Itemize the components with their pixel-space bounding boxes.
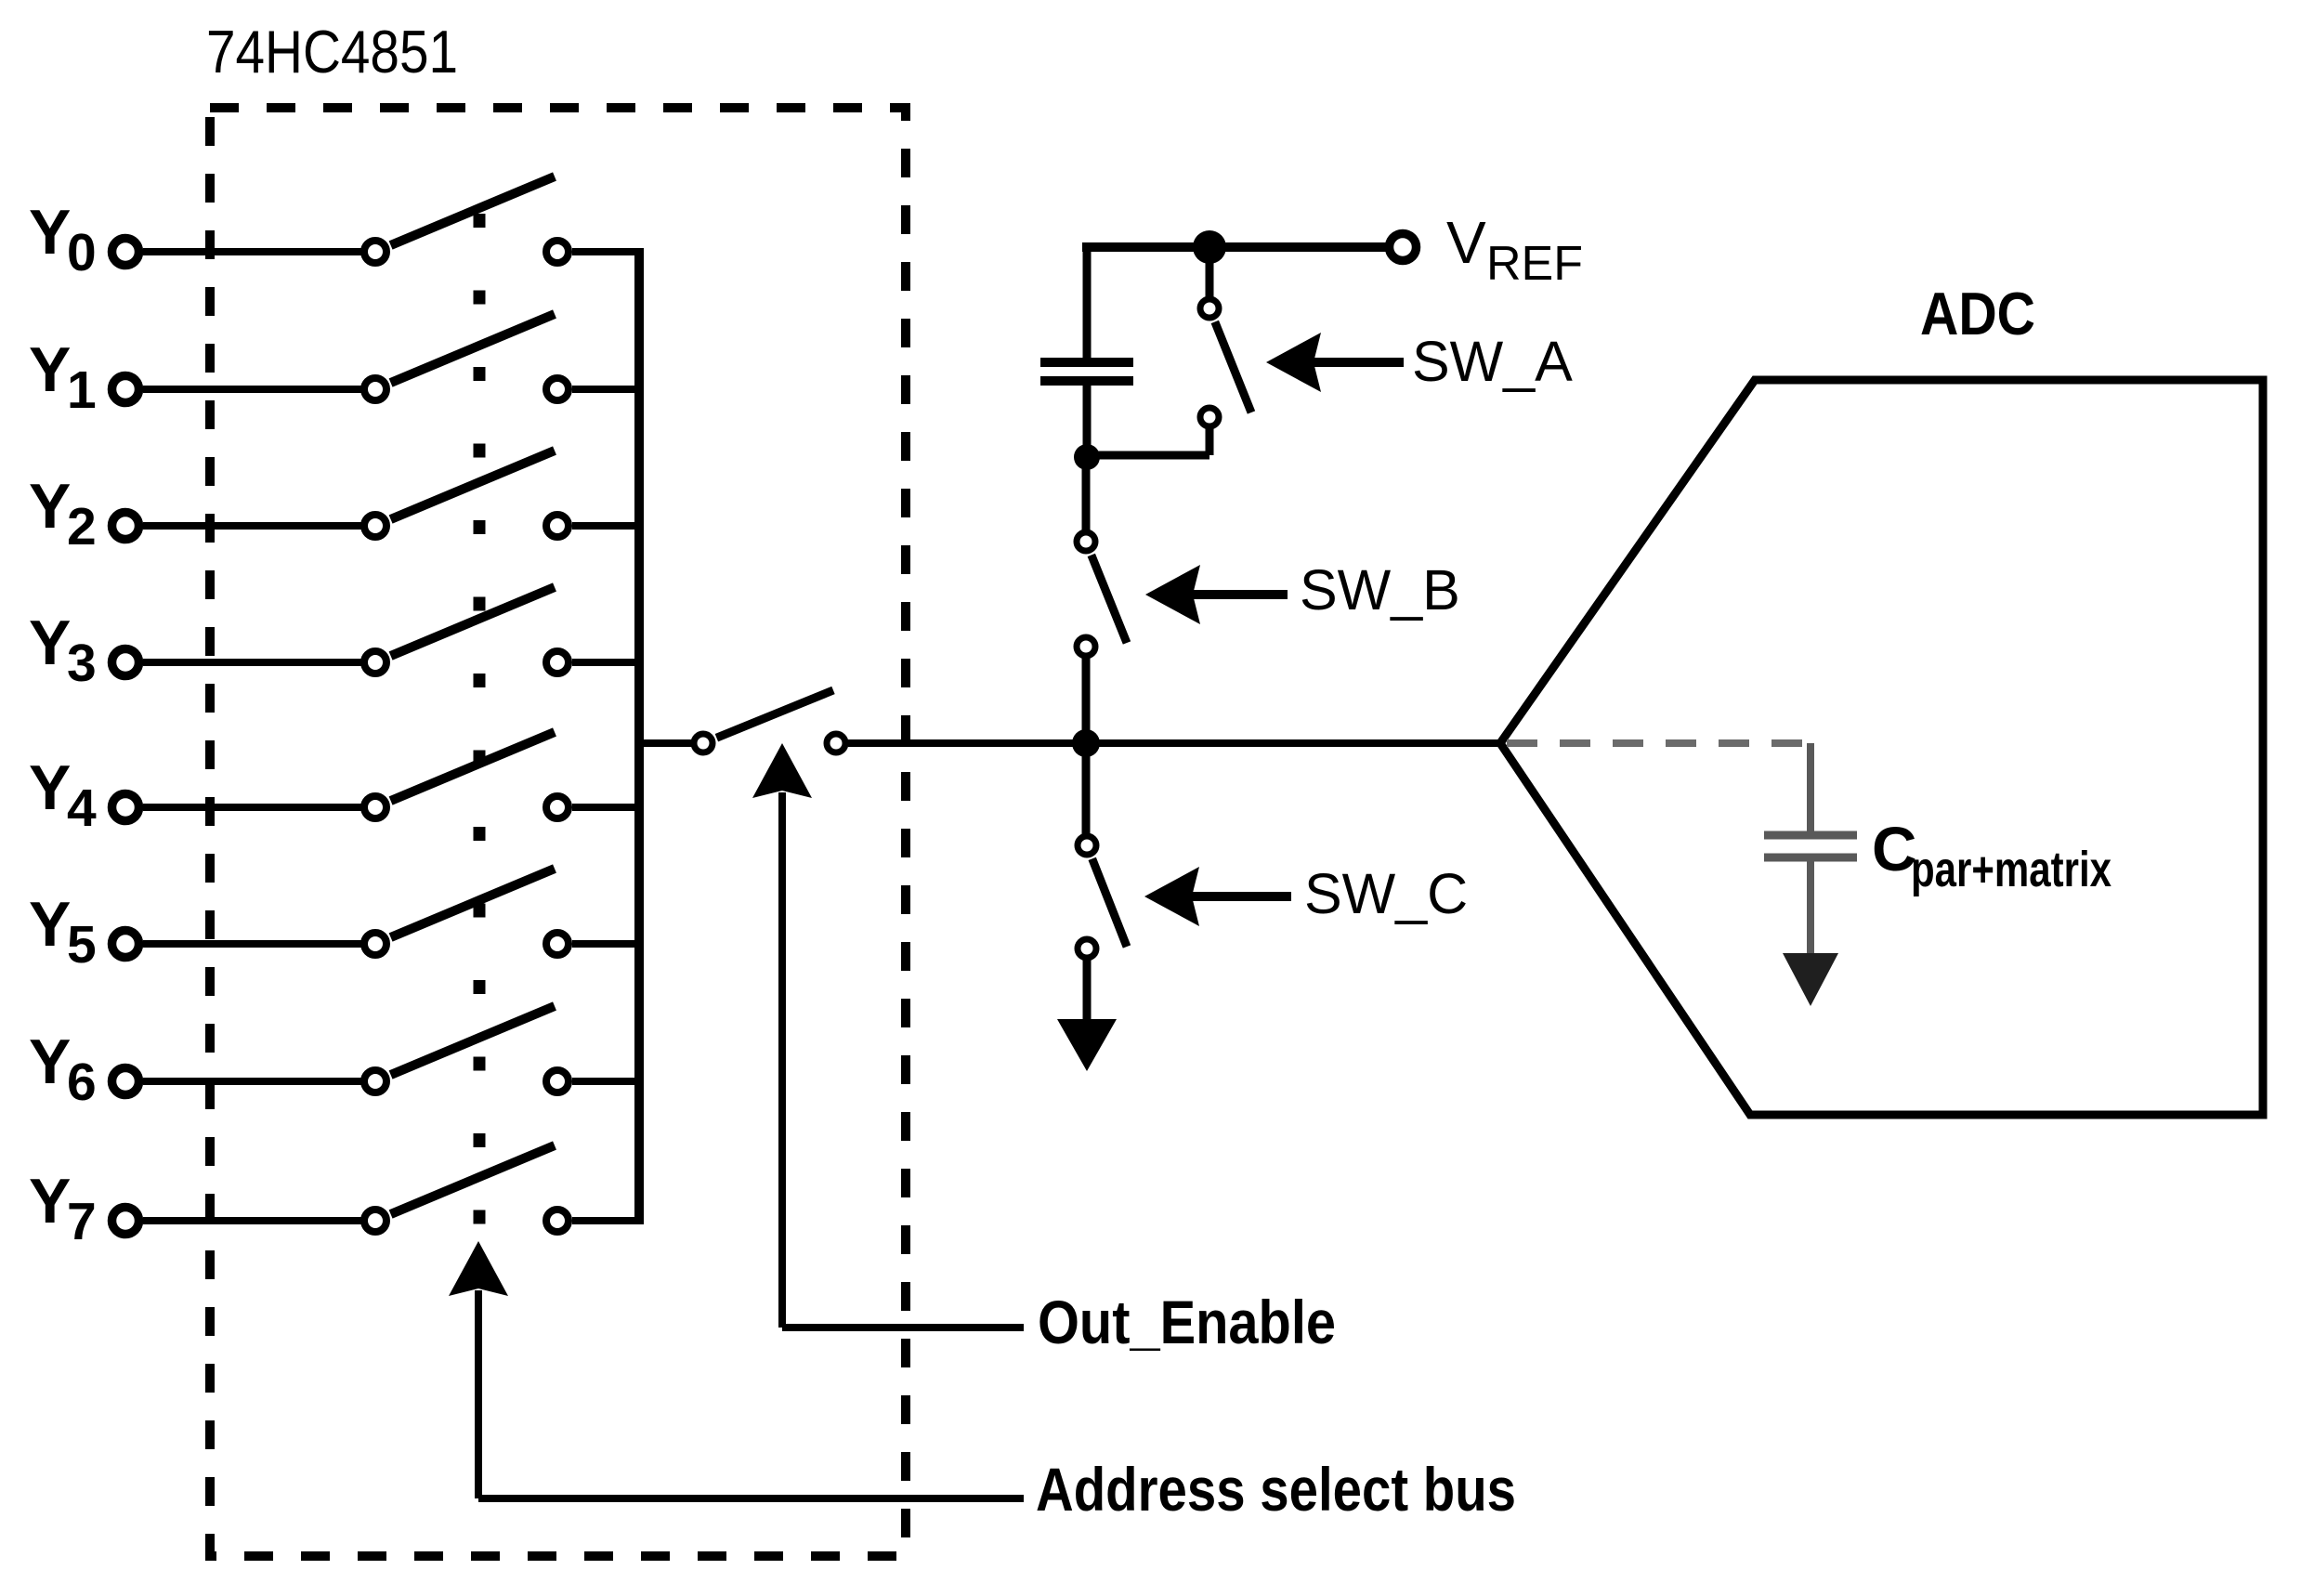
wire Y2 terminal to switch pole [143, 522, 362, 530]
svg-text:4: 4 [67, 778, 97, 838]
switch S3 output contact [546, 651, 569, 674]
switch S1 output contact [546, 378, 569, 400]
terminal Y5 [112, 931, 139, 958]
svg-text:6: 6 [67, 1053, 97, 1112]
switch SW_B bottom contact [1077, 637, 1095, 656]
input Y1 label [29, 334, 97, 420]
svg-text:par+matrix: par+matrix [1911, 842, 2111, 897]
switch S0 output contact [546, 241, 569, 263]
switch S5 output contact [546, 933, 569, 955]
svg-text:2: 2 [67, 497, 97, 556]
SW_C pointer arrow [1144, 867, 1291, 926]
wire Y5 terminal to switch pole [143, 940, 362, 948]
wire Y7 terminal to switch pole [143, 1217, 362, 1224]
svg-text:Y: Y [29, 197, 71, 268]
wire S2 contact to common bus [572, 522, 643, 530]
wire S6 contact to common bus [572, 1078, 643, 1085]
label Address select bus [1036, 1455, 1516, 1524]
wire SW_C bottom contact to ground arrow [1083, 958, 1092, 1031]
switch S6 blade (open) [391, 1006, 555, 1075]
switch S5 pole contact [364, 933, 386, 955]
switch S1 pole contact [364, 378, 386, 400]
svg-text:REF: REF [1486, 237, 1583, 291]
svg-text:Y: Y [29, 1027, 71, 1097]
sampling capacitor C1 bottom plate [1040, 376, 1133, 386]
switch S4 output contact [546, 796, 569, 818]
wire Y0 terminal to switch pole [143, 248, 362, 255]
svg-text:Y: Y [29, 608, 71, 678]
terminal Y3 [112, 649, 139, 676]
switch SW_A blade (open) [1215, 321, 1251, 412]
wire Y1 terminal to switch pole [143, 386, 362, 393]
switch S6 pole contact [364, 1070, 386, 1092]
common bus wire (mux outputs) [634, 248, 644, 1224]
capacitor Cpar+matrix top plate [1764, 831, 1857, 840]
switch S0 blade (open) [391, 177, 555, 245]
svg-text:SW_C: SW_C [1304, 862, 1468, 925]
switch S2 blade (open) [391, 451, 555, 519]
wire VREF node [1082, 242, 1386, 252]
ground arrow below Cpar [1783, 953, 1838, 1006]
wire common output line to ADC [848, 739, 1503, 747]
Out_Enable arrow (points at output switch) [752, 743, 812, 1328]
sampling capacitor C1 top plate [1040, 358, 1133, 367]
SW_A pointer arrow [1266, 333, 1404, 392]
terminal Y6 [112, 1068, 139, 1095]
label SW_C [1304, 862, 1468, 925]
switch S7 output contact [546, 1210, 569, 1232]
svg-text:3: 3 [67, 634, 97, 693]
svg-text:Y: Y [29, 471, 71, 542]
svg-text:74HC4851: 74HC4851 [206, 18, 458, 85]
svg-text:Address select bus: Address select bus [1036, 1455, 1516, 1524]
SW_B pointer arrow [1145, 565, 1288, 624]
switch S5 blade (open) [391, 869, 555, 937]
label Out_Enable [1038, 1288, 1336, 1356]
svg-text:Y: Y [29, 889, 71, 960]
capacitor Cpar+matrix bottom plate [1764, 854, 1857, 862]
switch SW_C top contact [1078, 836, 1096, 855]
switch S1 blade (open) [391, 314, 555, 383]
svg-text:ADC: ADC [1920, 280, 2035, 347]
output switch SW_OE blade (open) [716, 690, 833, 738]
switch S7 pole contact [364, 1210, 386, 1232]
wire SW_A branch to capacitor branch junction [1087, 451, 1209, 460]
ground arrow below SW_C [1057, 1019, 1117, 1071]
ADC U2 outline [1500, 380, 2263, 1115]
svg-text:Y: Y [29, 334, 71, 405]
wire capacitor to junction below [1083, 385, 1092, 455]
input Y5 label [29, 889, 97, 975]
switch S7 blade (open) [391, 1145, 555, 1214]
switch S3 blade (open) [391, 587, 555, 656]
multiplexer U1 boundary (dashed box) [210, 108, 906, 1556]
label SW_B [1300, 558, 1460, 621]
label VREF [1446, 209, 1583, 291]
switch S2 pole contact [364, 515, 386, 537]
Address select arrow (points at dotted line) [449, 1241, 508, 1498]
wire Y3 terminal to switch pole [143, 659, 362, 666]
wire output line down to SW_C [1082, 747, 1091, 834]
wire VREF junction down to SW_A [1206, 247, 1214, 298]
wire bus to output switch pole [639, 739, 692, 747]
input Y2 label [29, 471, 97, 556]
wire S0 contact to common bus [572, 248, 643, 255]
svg-text:V: V [1446, 209, 1486, 276]
switch S6 output contact [546, 1070, 569, 1092]
svg-text:Y: Y [29, 1166, 71, 1236]
svg-text:Y: Y [29, 752, 71, 823]
multiplexer U1 label 74HC4851 [206, 18, 458, 85]
address-select dotted line inside U1 [474, 214, 486, 1224]
terminal VREF [1390, 234, 1417, 261]
wire SW_A bottom contact down [1206, 426, 1214, 455]
svg-text:7: 7 [67, 1192, 97, 1251]
wire Y4 terminal to switch pole [143, 804, 362, 811]
wire Out_Enable [782, 1324, 1024, 1331]
input Y0 label [29, 197, 97, 282]
svg-text:1: 1 [67, 360, 97, 420]
switch SW_A bottom contact [1200, 408, 1219, 426]
wire S1 contact to common bus [572, 386, 643, 393]
svg-text:0: 0 [67, 223, 97, 282]
switch SW_B top contact [1077, 532, 1095, 551]
terminal Y2 [112, 513, 139, 540]
label Cpar+matrix [1872, 815, 2111, 897]
terminal Y1 [112, 376, 139, 403]
terminal Y4 [112, 794, 139, 821]
svg-text:SW_A: SW_A [1412, 330, 1573, 393]
wire SW_B bottom contact to output line [1082, 656, 1091, 739]
input Y3 label [29, 608, 97, 693]
switch SW_C bottom contact [1078, 939, 1096, 958]
switch S2 output contact [546, 515, 569, 537]
wire S3 contact to common bus [572, 659, 643, 666]
junction node capacitor / SW_A / SW_B [1074, 444, 1100, 470]
wire S4 contact to common bus [572, 804, 643, 811]
switch S0 pole contact [364, 241, 386, 263]
input Y6 label [29, 1027, 97, 1112]
switch SW_C blade (open) [1092, 858, 1127, 947]
switch S3 pole contact [364, 651, 386, 674]
junction node at SW_C column [1072, 729, 1100, 757]
switch SW_A top contact [1200, 299, 1219, 318]
label ADC [1920, 280, 2035, 347]
wire Y6 terminal to switch pole [143, 1078, 362, 1085]
terminal Y7 [112, 1208, 139, 1235]
wire S7 contact to common bus [572, 1217, 643, 1224]
wire node to Cpar capacitor (gray) [1807, 743, 1814, 831]
label SW_A [1412, 330, 1573, 393]
input Y4 label [29, 752, 97, 838]
input Y7 label [29, 1166, 97, 1251]
wire Address select bus [478, 1495, 1024, 1502]
wire Cpar capacitor to ground arrow (gray) [1807, 861, 1814, 957]
wire S5 contact to common bus [572, 940, 643, 948]
terminal Y0 [112, 239, 139, 266]
junction node VREF / SW_A [1193, 230, 1226, 264]
svg-text:Out_Enable: Out_Enable [1038, 1288, 1336, 1356]
output switch SW_OE output contact [827, 734, 845, 752]
svg-text:5: 5 [67, 915, 97, 975]
switch S4 blade (open) [391, 732, 555, 801]
switch SW_B blade (open) [1092, 555, 1127, 643]
wire junction down to SW_B [1082, 457, 1091, 530]
output switch SW_OE pole contact [694, 734, 713, 752]
svg-text:SW_B: SW_B [1300, 558, 1460, 621]
wire VREF wire down to sampling capacitor [1083, 247, 1092, 359]
switch S4 pole contact [364, 796, 386, 818]
dashed node extension inside ADC [1507, 739, 1811, 747]
